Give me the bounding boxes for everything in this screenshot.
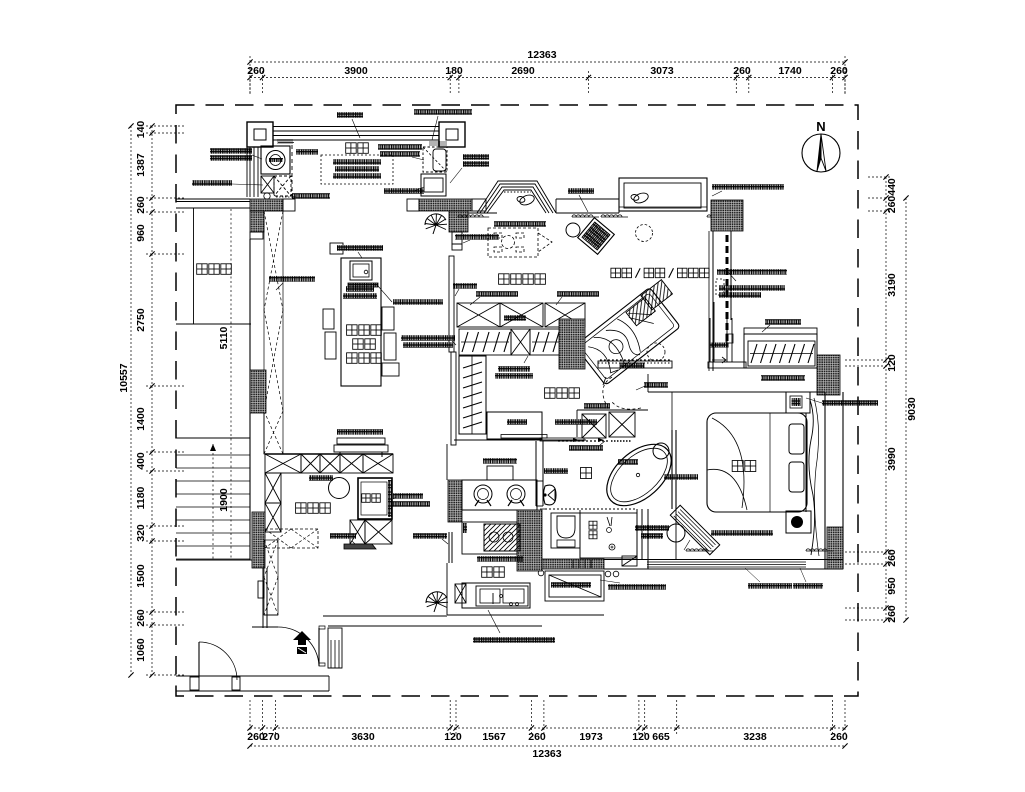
west wall lower segment: [262, 568, 264, 628]
svg-text:1180: 1180: [135, 486, 147, 509]
kitchen-bath divider wall: [535, 441, 537, 481]
av labels right: [717, 269, 787, 275]
hanging rod row: [459, 329, 511, 355]
kitchen sink counter: [462, 583, 530, 608]
corridor upper wall: [176, 198, 250, 200]
svg-text:120: 120: [632, 731, 650, 743]
svg-text:2750: 2750: [135, 308, 147, 332]
kitchen east wall pillar: [517, 510, 542, 571]
partition shower/desk: [636, 509, 638, 559]
bay window trapezoid: [477, 181, 556, 213]
bed headboard: [805, 413, 807, 512]
living room plant top: [425, 214, 447, 230]
bean bag sofa rotated: [578, 218, 615, 255]
svg-text:12363: 12363: [532, 748, 561, 760]
linen curtain door: [448, 532, 450, 563]
mahjong dashed zone: [488, 228, 552, 257]
west exterior wall: [249, 239, 251, 560]
master bed: [707, 413, 807, 512]
dimension chain top segments: [250, 77, 845, 79]
bedroom west wall: [675, 509, 677, 559]
svg-text:1400: 1400: [135, 407, 147, 431]
lift table dotted zone: [321, 155, 393, 184]
svg-text:260: 260: [247, 65, 265, 77]
corridor bottom walls: [176, 675, 329, 677]
svg-text:1973: 1973: [579, 731, 603, 743]
dimension chain bottom total 12363: [250, 745, 845, 747]
svg-text:3238: 3238: [743, 731, 767, 743]
calligraphy niche label: [401, 335, 455, 341]
north compass: [802, 134, 840, 172]
mop pool label: [292, 193, 330, 199]
washer wall lines: [246, 147, 248, 197]
svg-text:120: 120: [444, 731, 462, 743]
wall stem below right stub: [449, 211, 468, 232]
fridge: [358, 478, 392, 519]
dimension chain right segments: [885, 177, 887, 620]
urinal: [544, 485, 557, 505]
floor cushion dashed: [636, 225, 653, 242]
entry X band lower: [264, 540, 278, 615]
cloak wall pillar dark: [559, 319, 585, 369]
table room label: [347, 325, 358, 336]
shoe room label: [296, 503, 307, 514]
bedroom room label: [732, 461, 743, 472]
cleaning tools label: [192, 180, 232, 186]
dimension chain top total 12363: [250, 61, 845, 63]
ac labels: [608, 584, 666, 590]
wood door arc to suite: [603, 377, 612, 408]
svg-text:260: 260: [135, 609, 147, 627]
cloak room label: [545, 388, 556, 399]
bedroom north wall: [648, 391, 825, 393]
north wall segments study: [468, 212, 497, 214]
desk labels: [711, 530, 773, 536]
wall west stem: [250, 211, 264, 232]
bath south wall: [540, 559, 604, 569]
east wall study segment: [712, 231, 714, 371]
suite hall shelf dotted: [598, 362, 672, 364]
svg-text:10557: 10557: [118, 363, 130, 392]
svg-text:1500: 1500: [135, 564, 147, 588]
stove counter: [462, 480, 537, 510]
svg-text:960: 960: [135, 224, 147, 242]
folding door dashed: [291, 145, 293, 196]
shower glass dashed: [545, 508, 635, 510]
balcony railing window: [273, 126, 439, 128]
svg-text:180: 180: [445, 65, 463, 77]
floor cushion dashed 2: [647, 343, 665, 361]
dashed cabinet bottom-left: [265, 529, 318, 548]
svg-text:3990: 3990: [886, 447, 898, 471]
svg-text:1900: 1900: [218, 488, 230, 512]
spirit space room label: [499, 274, 510, 285]
svg-text:2690: 2690: [511, 65, 535, 77]
dining work table: [341, 258, 381, 386]
xbox below fridge: [350, 520, 365, 544]
bedroom east wall: [824, 392, 826, 569]
wall right stub under balcony: [407, 199, 419, 211]
balcony room label: [346, 143, 357, 154]
hanger hatch right col: [429, 141, 431, 146]
svg-text:270: 270: [262, 731, 280, 743]
svg-text:12363: 12363: [527, 49, 556, 61]
dim extension 5110 dotted: [230, 209, 232, 560]
bay cabinet label right: [712, 184, 784, 190]
kitchen south wall: [447, 614, 542, 616]
dining chairs: [323, 309, 334, 329]
dimension right total 9030: [905, 198, 907, 620]
entry wall to kitchen: [542, 614, 604, 616]
nightstand top with lamp: [786, 392, 810, 413]
wall pillar right of tv: [817, 355, 840, 395]
mobile tv bench: [337, 429, 383, 435]
svg-text:260: 260: [830, 731, 848, 743]
svg-text:1060: 1060: [135, 638, 147, 662]
bench seat: [487, 412, 542, 439]
glass sliding door bottom: [555, 419, 597, 425]
washing machine: [261, 146, 290, 174]
dimension chain left segments: [151, 126, 153, 675]
table track socket: [348, 283, 378, 287]
glass screen label: [455, 234, 499, 240]
svg-text:5110: 5110: [218, 326, 230, 349]
water point labels: [463, 154, 489, 160]
svg-text:320: 320: [135, 524, 147, 542]
bath room label: [581, 468, 592, 479]
svg-text:400: 400: [135, 452, 147, 470]
shoe cabinet row top: [265, 454, 301, 473]
washer side hatch: [278, 140, 294, 143]
water purifier under table labels: [346, 286, 374, 292]
dimension left total 10557: [130, 126, 132, 675]
bathtub: [595, 432, 682, 517]
stair flight bottom-left: [176, 437, 250, 439]
water purifier box: [421, 174, 446, 196]
elevator hall room label: [197, 264, 208, 275]
threshold steps bath: [572, 560, 574, 568]
balcony column left: [247, 122, 273, 147]
table sink: [350, 261, 372, 280]
glass partition label: [664, 474, 698, 480]
study futon rotated: [575, 287, 681, 385]
wardrobe care machine labels: [498, 366, 530, 372]
low shelf under futon: [598, 361, 672, 368]
robot vacuum dashed box: [423, 147, 447, 172]
tall wardrobe west: [459, 356, 486, 434]
svg-text:3190: 3190: [886, 273, 898, 297]
bath north wall: [577, 409, 648, 411]
bed pillows: [789, 424, 804, 454]
steam oven cabinet: [462, 522, 517, 554]
hanger label top right: [414, 109, 472, 115]
svg-text:N: N: [816, 119, 825, 134]
cabinet row top xboxes: [457, 303, 500, 327]
property boundary dashed: [176, 105, 858, 696]
washer labels left: [210, 148, 252, 154]
svg-text:9030: 9030: [906, 397, 918, 421]
hood box above stove: [487, 466, 513, 480]
svg-text:1567: 1567: [482, 731, 506, 743]
svg-text:260: 260: [135, 196, 147, 214]
corridor door bottom-left: [190, 677, 199, 690]
entry threshold steps: [328, 628, 342, 668]
kitchen flue xbox: [455, 584, 466, 603]
balcony column right: [439, 122, 465, 147]
window labels south: [748, 583, 792, 589]
svg-text:260: 260: [733, 65, 751, 77]
study room label: [611, 268, 621, 278]
bay window flat top-right: [619, 178, 707, 211]
sink label leader: [473, 637, 555, 643]
bath stool: [653, 443, 669, 459]
shoe cabinet west column: [265, 473, 281, 503]
svg-text:665: 665: [652, 731, 670, 743]
svg-text:3900: 3900: [344, 65, 368, 77]
entry door arc: [318, 628, 320, 666]
futon pillows: [624, 280, 675, 326]
bedroom south window: [647, 561, 806, 563]
hidden cabinet X band west: [264, 211, 283, 454]
kitchen room label: [482, 567, 493, 578]
mini book bar counter: [709, 318, 711, 362]
hanging cabinet label: [330, 533, 356, 539]
wall left stub under balcony: [250, 199, 283, 211]
window sill coils: [458, 215, 483, 217]
balcony curtain label top: [337, 112, 363, 118]
shower area: [580, 513, 637, 558]
study curtain label: [568, 188, 594, 194]
entry south wall: [323, 615, 447, 617]
bedroom south wall: [604, 559, 843, 561]
bath west wall: [540, 508, 545, 510]
fridge labels: [393, 493, 423, 499]
west wall pillar bottom: [252, 512, 265, 568]
west wall pillar mid: [250, 370, 266, 413]
kitchen west wall: [446, 444, 448, 480]
projector screen dashed strip: [726, 235, 729, 345]
tv cabinet frosted glass: [744, 328, 817, 334]
svg-text:260: 260: [886, 196, 898, 214]
svg-text:260: 260: [528, 731, 546, 743]
desk rotated writing table: [670, 505, 719, 554]
entry wall corner: [252, 626, 278, 628]
stool circle: [329, 478, 350, 499]
suite hall east line: [671, 392, 673, 413]
elevator hall walls: [193, 208, 195, 324]
bath east wall: [671, 430, 673, 509]
svg-text:950: 950: [886, 577, 898, 595]
entry plant: [426, 592, 448, 608]
towel warmer dashed: [558, 440, 608, 442]
vanity xbox 2: [609, 412, 635, 437]
nightstand bottom speaker: [786, 511, 811, 533]
svg-text:260: 260: [886, 605, 898, 623]
wood sliding door living east: [449, 256, 454, 352]
svg-text:1387: 1387: [135, 153, 147, 177]
svg-text:140: 140: [135, 121, 147, 139]
svg-text:3630: 3630: [351, 731, 375, 743]
east wall pillar top: [711, 200, 743, 231]
svg-text:260: 260: [886, 549, 898, 567]
vanity xbox 1: [582, 414, 606, 438]
svg-text:440: 440: [886, 178, 898, 196]
ac outdoor unit box: [545, 571, 604, 601]
svg-text:120: 120: [886, 354, 898, 372]
toilet suite: [551, 513, 580, 548]
dimension chain bottom segments: [250, 727, 845, 729]
svg-text:1740: 1740: [778, 65, 802, 77]
storage xbox below washer: [261, 176, 274, 193]
urinal wall stub: [535, 481, 537, 506]
svg-text:260: 260: [830, 65, 848, 77]
entry arrow: [293, 631, 311, 645]
svg-text:3073: 3073: [650, 65, 674, 77]
